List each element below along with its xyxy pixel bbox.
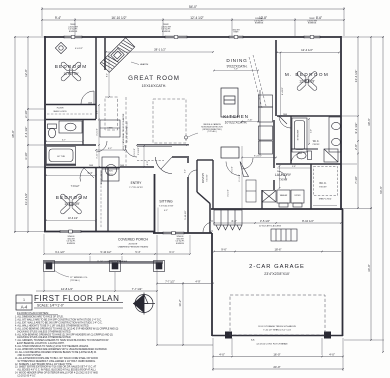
svg-text:2'-6 1/2": 2'-6 1/2" (138, 147, 140, 155)
window label (233, 30, 241, 34)
laundry dim leaders (277, 167, 311, 169)
hearth leader line (131, 62, 139, 65)
svg-text:64'-6": 64'-6" (379, 186, 383, 194)
svg-text:MECH: MECH (107, 174, 113, 176)
porch dim extensions (44, 234, 190, 262)
left extensions (14, 37, 45, 232)
window bedroom1 north (64, 36, 82, 39)
svg-text:FLOOR PLAN NOTES:: FLOOR PLAN NOTES: (17, 311, 49, 315)
sitting east wall (187, 177, 189, 233)
svg-text:(2) 2X10 IS 4'-10".: (2) 2X10 IS 4'-10". (15, 376, 37, 378)
svg-text:7'-6"X10'-6"X9': 7'-6"X10'-6"X9' (159, 206, 174, 208)
svg-text:W.H.: W.H. (109, 171, 113, 173)
svg-text:2668: 2668 (88, 103, 92, 105)
svg-text:2'-8": 2'-8" (354, 144, 358, 150)
svg-text:ALL EDGES 4 8" O.C. IN FIELD,: ALL EDGES 4 8" O.C. IN FIELD, BLOCKED AT… (15, 369, 96, 372)
porch beam line2 (44, 263, 163, 265)
window label (254, 18, 264, 25)
svg-text:4'-6 1/2": 4'-6 1/2" (75, 48, 83, 50)
svg-text:5'-4": 5'-4" (88, 172, 93, 175)
svg-text:5. ALL LOAD BEARING OPENINGS T: 5. ALL LOAD BEARING OPENINGS TO HAVE (2)… (15, 327, 119, 330)
garage dim extensions (213, 338, 343, 371)
ceiling light diamond bedroom1 (55, 42, 66, 53)
svg-text:(2) 2X12 LONG FLITCH HEADER: (2) 2X12 LONG FLITCH HEADER (97, 260, 128, 263)
svg-text:10. ALL LOAD BEARING FRAMED OP: 10. ALL LOAD BEARING FRAMED OPENING BEAM… (15, 351, 97, 354)
svg-text:HEARTH: HEARTH (140, 63, 149, 66)
extension lines porch (44, 235, 183, 345)
svg-text:FLUSH: FLUSH (57, 108, 64, 110)
svg-text:2-CAR GARAGE: 2-CAR GARAGE (249, 264, 305, 270)
kitchen-mud door leaf (226, 162, 249, 177)
svg-text:4'-4": 4'-4" (231, 219, 237, 223)
patio door line (137, 145, 172, 147)
svg-text:4'-4 1/2": 4'-4 1/2" (282, 87, 284, 95)
svg-text:EGRESS: EGRESS (176, 243, 185, 245)
attic access pulldown stair (271, 229, 297, 241)
svg-text:2'X8'X9': 2'X8'X9' (312, 144, 320, 146)
hall vertical dim line (98, 105, 100, 167)
linen cabinet with X (262, 191, 276, 203)
kitchen dim line (242, 121, 258, 123)
svg-text:11'-4 1/2": 11'-4 1/2" (24, 193, 28, 205)
svg-text:(TYP. ALL): (TYP. ALL) (207, 130, 216, 133)
svg-text:EGRESS: EGRESS (69, 31, 78, 33)
dims below sitting (157, 283, 213, 285)
kitchen east / laundry west wall (273, 120, 275, 168)
dimension extension lines top (42, 7, 344, 36)
pantry door arc (188, 170, 197, 179)
svg-text:24'-0": 24'-0" (273, 365, 280, 369)
svg-text:14. WOOD HEADER SPAN OF EXTERI: 14. WOOD HEADER SPAN OF EXTERIOR WALLS F… (15, 372, 98, 375)
interior dim line master (277, 52, 339, 54)
water heater circle hall (106, 165, 117, 176)
svg-text:A.B.: A.B. (251, 339, 255, 342)
svg-text:10'X11'X9': 10'X11'X9' (64, 202, 80, 206)
svg-text:SCALE: 1/4"=1'-0": SCALE: 1/4"=1'-0" (37, 304, 65, 308)
window label (307, 18, 317, 25)
porch dimension row (44, 253, 190, 255)
bedroom1 east wall (95, 37, 97, 119)
svg-text:M. BEDROOM: M. BEDROOM (285, 72, 329, 77)
bedroom2 north wall (44, 167, 120, 169)
left dims inner (27, 37, 29, 232)
hall closet wall (261, 190, 263, 209)
svg-text:3. ALL EXT. WALLS ARE TO BE 2X: 3. ALL EXT. WALLS ARE TO BE 2X6 SPF CONS… (15, 322, 103, 325)
master bedroom west wall (275, 40, 277, 116)
svg-text:8'-0": 8'-0" (107, 73, 109, 77)
svg-text:9'-6": 9'-6" (221, 247, 227, 251)
porch post 1 (44, 261, 55, 272)
ceiling fan bedroom 2 (60, 193, 82, 214)
garage door jamb post right (324, 332, 331, 339)
svg-text:7'-10 1/2" SPAN & 3'-0" CLG: 7'-10 1/2" SPAN & 3'-0" CLG (263, 329, 291, 332)
svg-text:12'-8 1/2": 12'-8 1/2" (61, 287, 73, 291)
svg-text:SHELF & ROD: SHELF & ROD (53, 111, 67, 113)
svg-text:10'X22'XCATH.: 10'X22'XCATH. (225, 121, 248, 125)
bath small dim line (46, 141, 83, 143)
svg-text:A-4: A-4 (21, 305, 28, 310)
garage door gap edges (211, 220, 213, 222)
window great room north (165, 36, 187, 39)
entry vertical dim (143, 146, 145, 167)
master shower stall (292, 118, 307, 152)
smoke detector symbol (184, 136, 187, 139)
svg-text:EGRESS: EGRESS (255, 23, 264, 25)
exterior wall: south front left (44, 231, 155, 233)
garage west wall door gap (211, 221, 214, 231)
svg-text:4'-0": 4'-0" (219, 352, 225, 356)
svg-text:4'-0": 4'-0" (329, 352, 335, 356)
toilet bath2 (48, 124, 57, 138)
entry tray ceiling dashed (137, 160, 164, 162)
right dims middle (370, 37, 372, 340)
interior dim line great room (106, 51, 213, 53)
bedroom2 east closet wall (95, 168, 97, 231)
svg-text:12'-4 1/2": 12'-4 1/2" (190, 16, 203, 20)
svg-text:5'-8": 5'-8" (292, 166, 296, 168)
svg-text:24 LF CATHEDRAL TRUSS SYS ABOV: 24 LF CATHEDRAL TRUSS SYS ABOVE (122, 113, 125, 150)
svg-text:23'4"X23'8"X10': 23'4"X23'8"X10' (264, 272, 290, 276)
dining cathedral dashes (249, 55, 266, 108)
garage door dims (213, 356, 343, 358)
entry/sitting partition (172, 156, 189, 158)
porch post 3 (154, 261, 165, 272)
mud cabinets row (246, 180, 256, 202)
storage truss dashed outline (230, 295, 325, 335)
exterior wall: sitting bay west (154, 174, 156, 233)
closet2 rod (100, 170, 102, 228)
svg-text:(TYP. ALL): (TYP. ALL) (70, 279, 80, 282)
svg-text:9'-4": 9'-4" (55, 16, 61, 20)
mud hall east wall (209, 204, 211, 234)
vanity sink bath2 (59, 121, 82, 133)
laundry dims vertical (279, 166, 281, 188)
laundry door arc (277, 171, 286, 180)
master bath door leaf (279, 116, 287, 124)
svg-text:JACK/KING STUDS UNLESS OTHERWI: JACK/KING STUDS UNLESS OTHERWISE NOTED. (15, 330, 71, 333)
bedroom2 dim line2 (46, 220, 96, 222)
svg-text:5'-4": 5'-4" (135, 250, 140, 254)
title reference box A-4 (16, 295, 32, 310)
svg-text:BEDROOM: BEDROOM (55, 64, 88, 69)
svg-text:8'-10 1/2": 8'-10 1/2" (302, 219, 314, 223)
svg-text:16'-2": 16'-2" (178, 299, 182, 306)
overall width dimension 54'-0" (42, 8, 344, 10)
svg-text:22"X54" ATTIC ACCESS: 22"X54" ATTIC ACCESS (259, 225, 282, 228)
bath2 east wall (82, 120, 84, 145)
svg-text:3'-0": 3'-0" (185, 169, 187, 173)
garage overall width dim (213, 368, 343, 370)
hall small dim line (96, 149, 125, 151)
svg-text:W/ THRESHOLD DEADBOLT 1 BALLAR: W/ THRESHOLD DEADBOLT 1 BALLARDED 2 1/2"… (15, 360, 96, 363)
exterior wall: sitting bay south (153, 232, 212, 234)
garage south wall / garage door header (212, 335, 343, 337)
bedroom2 dim line (46, 175, 96, 177)
svg-text:PANTRY: PANTRY (201, 173, 205, 184)
lower connector line (157, 344, 213, 346)
svg-text:30'-6": 30'-6" (367, 118, 371, 126)
cathedral ceiling dashed lines great room (105, 97, 186, 166)
svg-text:9'-4 1/2": 9'-4 1/2" (254, 155, 262, 157)
svg-text:7'-9": 7'-9" (234, 69, 238, 71)
pantry east wall (212, 160, 214, 209)
svg-text:12'X14'X9': 12'X14'X9' (299, 80, 315, 84)
svg-text:SHELF & ROD: SHELF & ROD (319, 199, 332, 201)
svg-text:2ND FLOOR SYSTEM.: 2ND FLOOR SYSTEM. (15, 355, 42, 357)
window master bedroom north (304, 36, 320, 39)
svg-text:5'-0": 5'-0" (311, 129, 313, 133)
svg-text:12'-0": 12'-0" (24, 69, 28, 77)
svg-text:3'-9 1/2": 3'-9 1/2" (232, 166, 234, 174)
svg-text:5'-2": 5'-2" (108, 148, 113, 150)
svg-text:60" SHOWER: 60" SHOWER (298, 129, 300, 140)
WIC shelves dashed (314, 167, 338, 196)
svg-text:5'X3'X9': 5'X3'X9' (207, 174, 209, 182)
window label (68, 24, 78, 33)
svg-text:EGRESS: EGRESS (308, 23, 317, 25)
svg-text:4'-9": 4'-9" (195, 279, 200, 283)
svg-text:60" TUB: 60" TUB (57, 156, 65, 158)
garage east wall (342, 209, 344, 336)
svg-text:14'-4 1/2": 14'-4 1/2" (354, 70, 358, 83)
right extensions (342, 37, 384, 340)
pantry west wall (196, 160, 198, 192)
mud to garage door arc (203, 222, 213, 232)
svg-text:WASHER: WASHER (280, 194, 288, 197)
master bath south / laundry north wall (276, 163, 341, 165)
porch post 2 (110, 261, 121, 272)
garage interior dims row1 (214, 222, 341, 224)
svg-text:6'-1": 6'-1" (169, 250, 174, 254)
ceiling fan master bedroom (296, 71, 317, 91)
svg-text:1: 1 (23, 298, 25, 302)
svg-text:2'-10": 2'-10" (248, 120, 253, 122)
mud hall angled wall (197, 192, 210, 204)
master bath west wall (290, 116, 292, 164)
svg-text:W.I.C.: W.I.C. (319, 181, 327, 185)
svg-text:2468: 2468 (120, 165, 124, 167)
svg-text:4'-4 1/2": 4'-4 1/2" (97, 128, 99, 136)
right dims outer (382, 37, 384, 352)
window sitting south (163, 232, 184, 235)
window bedroom2 south (60, 230, 81, 233)
svg-text:6. ALL NON-BEARING OPENINGS TO: 6. ALL NON-BEARING OPENINGS TO HAVE (2) … (15, 333, 113, 336)
svg-text:8'X5'X9': 8'X5'X9' (319, 187, 327, 189)
master shower (324, 149, 338, 162)
window label (66, 236, 76, 245)
notes heading underline (17, 314, 58, 316)
svg-text:4. ALL WALL HEIGHTS TO BE 9'-1: 4. ALL WALL HEIGHTS TO BE 9'-1 1/8" UNLE… (15, 324, 89, 327)
closet2 east wall (107, 168, 109, 231)
kitchen hall door arc (242, 158, 253, 169)
garage interior dims row2 (214, 251, 341, 253)
svg-text:W.I.C.: W.I.C. (313, 140, 320, 143)
svg-text:(2) 2X12 CONT. FLITCH BEAM: (2) 2X12 CONT. FLITCH BEAM (257, 343, 288, 346)
svg-text:9'-4 1/2": 9'-4 1/2" (354, 123, 358, 134)
great room west wall upper (104, 38, 106, 70)
svg-text:16'-0": 16'-0" (273, 352, 280, 356)
svg-text:TEMP.: TEMP. (233, 32, 239, 34)
svg-text:BEDROOM: BEDROOM (56, 195, 89, 200)
column leader (54, 270, 69, 277)
svg-text:EACH BEARING LOCATION. 1 ALONG: EACH BEARING LOCATION. 1 ALONG PATH. (15, 342, 65, 345)
porch lower dims (36, 290, 157, 292)
svg-text:5'-10 1/2": 5'-10 1/2" (185, 210, 187, 219)
wic dim (313, 205, 337, 207)
m.bedroom dim vertical (280, 53, 282, 117)
great room south wall (137, 144, 189, 146)
svg-text:9. ALL WINDOWS NOTED ARE ANDER: 9. ALL WINDOWS NOTED ARE ANDERSEN VINYL … (15, 348, 108, 351)
svg-text:6'-1 1/2": 6'-1 1/2" (239, 174, 241, 182)
svg-text:EGRESS: EGRESS (162, 31, 171, 33)
laundry east / WIC west wall (310, 164, 312, 209)
leader (188, 133, 198, 137)
exterior wall: east (right) (340, 36, 342, 210)
svg-text:12" TAPERED COL.: 12" TAPERED COL. (70, 276, 88, 279)
right dims inner (357, 37, 359, 208)
svg-text:7'-10": 7'-10" (354, 176, 358, 184)
svg-text:34'-0": 34'-0" (367, 264, 371, 272)
ceiling fan bedroom 1 (60, 61, 81, 81)
svg-text:2'-10": 2'-10" (24, 110, 28, 118)
svg-text:7'-7 1/2": 7'-7 1/2" (132, 287, 143, 291)
svg-text:2668: 2668 (89, 165, 93, 167)
svg-text:26'X5'X9': 26'X5'X9' (128, 244, 138, 246)
svg-text:4'-4 1/2": 4'-4 1/2" (24, 127, 28, 138)
bath2 north wall (46, 119, 96, 121)
front door swing (156, 157, 173, 174)
svg-text:COVERED PORCH: COVERED PORCH (118, 238, 149, 242)
svg-text:ENTRY: ENTRY (131, 181, 143, 185)
svg-text:JACK/KING STUDS UNLESS OTHERWI: JACK/KING STUDS UNLESS OTHERWISE NOTED. (15, 336, 71, 339)
hall vertical dim line (241, 146, 243, 208)
svg-text:9'-1 1/2": 9'-1 1/2" (55, 250, 65, 254)
svg-text:1. ALL DIMENSIONS ARE TO FACE: 1. ALL DIMENSIONS ARE TO FACE OF STUD. (15, 316, 64, 319)
hall dim line (242, 157, 276, 159)
svg-text:2'-8": 2'-8" (97, 110, 99, 114)
tub with shower bath2 (47, 147, 76, 165)
kitchen south / pantry north wall (197, 159, 213, 161)
porch edge beam (44, 261, 163, 263)
svg-text:4'-0 1/2": 4'-0 1/2" (228, 189, 230, 197)
master bath partition (291, 148, 318, 150)
great room door dims (136, 144, 138, 146)
top dimension line segments (42, 19, 344, 21)
svg-text:7. ALL GIRDERS, TRUSSES & BEAM: 7. ALL GIRDERS, TRUSSES & BEAMS TO HAVE … (15, 339, 109, 342)
sitting east wall upper (187, 158, 189, 163)
fireplace with hearth (100, 38, 135, 73)
svg-text:2'-6 1/2": 2'-6 1/2" (134, 148, 136, 156)
svg-text:28'-1 1/2": 28'-1 1/2" (154, 48, 166, 52)
kitchen island (221, 88, 239, 158)
left overall dim (14, 37, 16, 232)
window label (161, 24, 171, 33)
scale underline (34, 307, 123, 309)
washer and dryer (277, 190, 304, 207)
svg-text:12. SCREWS, 1 EA? BOARD SHALL: 12. SCREWS, 1 EA? BOARD SHALL 1/2" FIELD… (15, 363, 72, 366)
svg-text:DINING: DINING (226, 58, 247, 63)
svg-text:7'-8 1/2": 7'-8 1/2" (71, 185, 80, 188)
svg-text:11'X11'X9': 11'X11'X9' (64, 72, 79, 76)
garage door jamb post left (225, 332, 232, 339)
linen cabinet hall (100, 120, 120, 181)
master bath door arcs (279, 116, 302, 164)
svg-text:3'-10": 3'-10" (97, 153, 99, 158)
great room dim vertical (108, 52, 110, 97)
svg-text:7'-7 1/2": 7'-7 1/2" (165, 279, 175, 283)
bedroom1 south wall (46, 104, 96, 106)
svg-text:SITTING: SITTING (159, 200, 173, 204)
svg-text:8. ALL STAIR OPENINGS TO HAVE: 8. ALL STAIR OPENINGS TO HAVE (2) 2X12 S… (15, 345, 89, 348)
svg-text:7'-7"X5'-10"X9': 7'-7"X5'-10"X9' (129, 187, 143, 189)
dining dim line (214, 70, 258, 72)
north arrow compass (133, 293, 155, 315)
svg-text:4'-0": 4'-0" (147, 161, 149, 166)
entry south wall (120, 166, 154, 168)
door arcs hall and bedrooms (80, 91, 107, 182)
exterior wall: west (left) (44, 36, 46, 232)
svg-text:8'-6": 8'-6" (316, 16, 322, 20)
bath2 south wall (46, 144, 96, 146)
svg-text:2. ALL INT. WALLS ARE TO BE 2X: 2. ALL INT. WALLS ARE TO BE 2X4 SPF CONS… (15, 319, 102, 322)
kitchen counter appliances (259, 90, 273, 155)
svg-text:CHAMFERED PRESSURE TREATED: CHAMFERED PRESSURE TREATED (118, 246, 149, 249)
svg-text:15'X16'XCATH.: 15'X16'XCATH. (142, 84, 167, 88)
svg-text:7'X5'X9': 7'X5'X9' (279, 179, 288, 182)
svg-text:38'-0": 38'-0" (11, 130, 15, 138)
svg-text:54'-0": 54'-0" (189, 5, 197, 9)
exterior wall: north (top) (44, 36, 341, 38)
smoke detector note (201, 123, 223, 133)
svg-text:11. ALL EXTERIOR DOORS ARE TO: 11. ALL EXTERIOR DOORS ARE TO BE 1 3/4" … (15, 357, 98, 360)
svg-text:12'-4 1/2": 12'-4 1/2" (301, 48, 313, 52)
svg-text:DRYER: DRYER (295, 195, 302, 197)
title underline (34, 301, 123, 303)
svg-text:KITCHEN: KITCHEN (223, 114, 248, 119)
master double vanity (329, 117, 341, 152)
svg-text:13. SHEET ENTIRE EXTERIOR W/ 7: 13. SHEET ENTIRE EXTERIOR W/ 7/16 OSB OR… (15, 366, 97, 369)
mudroom cubbies in garage (214, 210, 242, 230)
svg-text:EGRESS: EGRESS (67, 243, 76, 245)
garage west wall (211, 233, 213, 336)
svg-text:3'-10": 3'-10" (24, 152, 28, 160)
window label (175, 236, 185, 245)
svg-text:2868: 2868 (283, 114, 287, 116)
svg-text:24 LF STORAGE TRUSS SYS ABOVE: 24 LF STORAGE TRUSS SYS ABOVE (258, 325, 296, 328)
svg-text:FIRST FLOOR PLAN: FIRST FLOOR PLAN (34, 294, 119, 303)
closet rod dashes (47, 113, 92, 115)
garage north wall (211, 208, 343, 210)
mbath dims (308, 119, 310, 144)
svg-text:W/ 1X6 T&G PINE CLG: W/ 1X6 T&G PINE CLG (127, 121, 129, 143)
tub south wall (46, 164, 76, 166)
floor plan notes text block (15, 316, 119, 378)
svg-text:GREAT ROOM: GREAT ROOM (128, 75, 180, 82)
window dining north (229, 36, 243, 39)
svg-text:5'-10 1/2": 5'-10 1/2" (101, 250, 112, 254)
svg-text:18'-6": 18'-6" (274, 247, 281, 251)
svg-text:LINEN: LINEN (107, 128, 113, 130)
svg-text:10'-6 1/2": 10'-6 1/2" (68, 217, 78, 220)
svg-text:3'-5 1/2": 3'-5 1/2" (260, 219, 270, 223)
master bedroom south wall (277, 115, 341, 117)
sitting dims (157, 208, 159, 234)
master toilet (297, 151, 312, 160)
svg-text:6'-7": 6'-7" (62, 140, 66, 142)
laundry west wall lower (273, 180, 275, 190)
svg-text:SHELF & ROD: SHELF & ROD (101, 171, 103, 185)
svg-text:4'-2": 4'-2" (164, 210, 168, 212)
